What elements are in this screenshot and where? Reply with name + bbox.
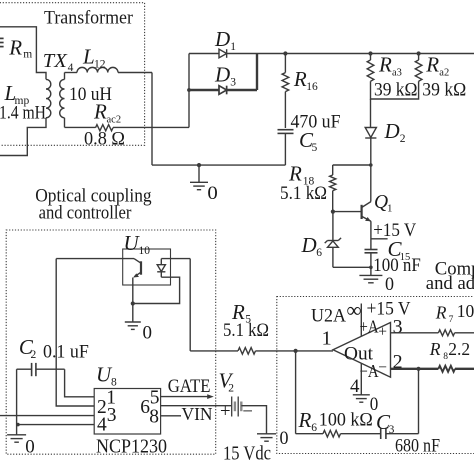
wire: R5 to node [256,350,296,352]
optocoupler U10 box [123,249,171,285]
label Out [344,344,374,365]
svg-text:2: 2 [400,133,406,145]
wire: ground tap to pin4 row [17,424,95,426]
svg-text:−: − [378,359,387,376]
resistor R18 [330,165,336,191]
label C5 [299,128,318,154]
wire: opto to pin2 row [56,259,94,406]
wire: D3 to D1 join [256,54,258,91]
ground (secondary) symbol [190,182,208,189]
label +15 V op-amp [367,299,411,320]
capacitor C5 [278,130,294,134]
svg-text:5.1 kΩ: 5.1 kΩ [223,320,269,341]
label C3 [376,410,395,436]
transistor Q1 [362,202,371,222]
wire: left edge to pin3 row [0,415,94,417]
label pin1 bold [322,328,332,350]
svg-text:5: 5 [312,142,318,154]
svg-text:D: D [301,233,317,257]
svg-text:2: 2 [31,349,37,361]
label 0 left ground [25,438,35,458]
label D1 [214,27,236,53]
label 0.1 uF [43,341,89,362]
label TX4 [43,50,74,74]
resistor R5 [238,348,256,355]
label and adjust (cut) [426,273,474,294]
wire: Ra3 to D2 [370,99,372,128]
svg-text:D: D [214,27,230,51]
svg-text:Transformer: Transformer [44,7,134,28]
svg-text:D: D [384,119,400,143]
opto emitter [133,272,141,277]
svg-text:15 Vdc: 15 Vdc [223,443,271,465]
wire: R18 to base node [332,191,334,212]
node: Ra2 top [417,51,421,55]
label D3 [214,62,236,88]
wire: R6 to C3 [341,433,381,435]
svg-text:R: R [435,303,447,323]
svg-text:5.1 kΩ: 5.1 kΩ [280,183,327,204]
wire D1 left [189,53,219,55]
wire: rail to R16 [284,54,286,73]
svg-text:100 kΩ: 100 kΩ [319,409,373,430]
label Compensation (cut) [435,259,474,280]
wire: +15V supply line [360,304,362,337]
svg-text:a3: a3 [392,68,402,79]
svg-text:1: 1 [322,328,332,350]
wire: R16 to C5 [284,92,286,128]
wire: pin2 out right [455,368,474,370]
svg-text:U2A: U2A [311,306,346,327]
label R8 [429,339,449,362]
wire: top rail [257,53,474,55]
svg-text:8: 8 [111,377,117,389]
wire D3 right [227,89,257,91]
label +15 V (Q1) [373,220,416,241]
wire D1 right [227,53,257,55]
wire: op-amp ground line [360,363,362,395]
wire: primary top [0,27,46,80]
svg-text:0: 0 [385,275,394,295]
diode D1 [219,49,227,58]
label infinity [347,298,362,322]
svg-text:R: R [378,53,392,77]
secondary winding TX4 [60,79,65,117]
wire: D6 C15 join [333,266,373,270]
wire: R_ac2 to diodes [113,126,189,128]
wire: emitter down [132,278,134,323]
resistor Ra3 [367,54,374,82]
label 0 battery ground [280,429,289,449]
wire: D2 down to Q1 collector [370,138,372,202]
label 10 uH [69,84,112,105]
svg-text:1.4 mH: 1.4 mH [0,103,46,124]
label +A [360,317,379,337]
wire: L12 to right vertical [118,73,152,166]
svg-text:and controller: and controller [39,203,132,224]
label 5.1 kohm R18 [280,183,327,204]
svg-text:R: R [425,53,439,77]
svg-text:3: 3 [230,76,236,88]
pin 4 [97,414,107,435]
resistor R_ac2 [96,125,113,131]
svg-text:4: 4 [97,414,107,435]
pin 5 [150,388,160,409]
label U2A [311,306,346,327]
svg-text:R: R [429,339,441,359]
label VIN [182,404,213,424]
wire: R18 top link [333,163,373,167]
svg-text:1: 1 [387,202,393,214]
wire: C2 down to ground [16,369,18,435]
svg-text:TX: TX [43,50,68,72]
svg-text:R: R [8,36,22,60]
node: R16 top [283,51,287,55]
label pin3 [393,316,403,338]
label 0 secondary ground [207,184,217,204]
svg-text:4: 4 [350,376,360,397]
zener diode D6 [325,238,341,247]
resistor R8 [438,366,455,372]
svg-text:0: 0 [25,438,35,458]
label 680 nF [395,436,440,457]
wire: secondary bottom to R_ac2 [65,126,96,128]
svg-text:L: L [82,45,95,69]
wire: secondary top stub [65,73,78,80]
label R_ac2 [93,100,121,126]
wire: VIN [161,415,181,417]
svg-text:39 kΩ: 39 kΩ [422,80,466,101]
svg-text:0.8 Ω: 0.8 Ω [84,129,125,150]
svg-text:D: D [214,62,230,86]
wire: Ra3 Ra2 join [371,81,419,99]
wire: feedback riser [418,369,420,434]
label D2 [384,119,406,145]
ground (op-amp) [353,395,370,402]
diode D2 [365,128,376,139]
node: feedback node [416,367,420,371]
svg-text:16: 16 [306,81,318,93]
label Optical coupling [35,186,151,207]
wire: C2 left [17,368,32,370]
svg-text:3: 3 [107,405,117,426]
label U8 [96,363,117,389]
svg-text:2: 2 [228,382,234,394]
resistor Ra2 [415,54,422,82]
svg-text:0.1 uF: 0.1 uF [43,341,89,362]
svg-text:470 uF: 470 uF [291,111,341,132]
wire: battery to ground [241,406,266,434]
svg-text:6: 6 [316,247,322,259]
label 100 nF [373,255,421,276]
wire: ground stem [198,165,200,182]
wire: C15 to ground [370,253,372,276]
wire: secondary bottom stub [64,118,66,128]
label - battery [242,401,253,422]
label R6 [298,408,318,434]
label R5 [231,300,251,326]
dashed box: Compensation and adjust [277,297,474,454]
wire: feedback bottom left [296,433,323,435]
svg-text:0: 0 [143,324,153,344]
label + battery [220,401,231,422]
ground (15Vdc) [257,434,276,441]
label 10 k (cut) [457,301,474,321]
dashed box: Optical coupling and controller [6,230,216,454]
label Q1 [374,192,393,214]
svg-text:0: 0 [280,429,289,449]
label R_m [8,36,32,61]
wire: secondary ground rail [152,164,285,166]
wire: LED bottom return [133,277,180,303]
label 100 kohm [319,409,373,430]
label U10 [124,231,151,257]
svg-text:+: + [378,324,387,341]
diode D3 [219,86,227,95]
capacitor C3 [381,429,386,440]
svg-text:GATE: GATE [168,376,211,397]
node: op-amp input node [294,349,298,353]
label - input [378,359,387,376]
svg-text:ac2: ac2 [107,115,122,126]
wire: C2 to pin1 row [65,369,95,397]
svg-text:−: − [242,401,253,422]
label 2.2 (cut) [448,339,470,359]
label 1.4 mH [0,103,46,124]
svg-text:10: 10 [457,301,474,321]
label pin2 [393,351,403,373]
svg-text:39 kΩ: 39 kΩ [374,80,418,101]
label R7 [435,303,454,326]
svg-text:5: 5 [150,388,160,409]
wire: primary bottom [0,118,46,156]
wire: C3 to riser [386,433,419,435]
label R16 [293,67,318,93]
svg-text:m: m [23,49,32,61]
label Ra3 [378,53,402,79]
label + input [378,324,387,341]
label L12 [82,45,106,71]
ground (opto) [125,322,141,329]
svg-text:R: R [293,67,307,91]
pin 3 [107,405,117,426]
pin 6 [140,397,150,418]
label 39 kohm right [422,80,466,101]
svg-text:1: 1 [230,41,236,53]
node: opto ground node [131,301,135,305]
svg-text:100 nF: 100 nF [373,255,421,276]
label 0 C15 ground [385,275,394,295]
svg-text:7: 7 [449,315,454,325]
label C15 [388,237,411,263]
wire: to R5 [190,350,238,352]
wire: opto collector wire [56,259,141,264]
wire: right vertical to R5 [189,259,191,351]
label V2 [219,368,235,394]
wire: up to D1 line [188,54,190,128]
opto phototransistor bar [140,261,142,274]
node: Ra3 top [368,51,372,55]
resistor R6 [323,430,340,437]
label C2 [19,335,37,361]
label L_mp [4,81,30,107]
svg-text:680 nF: 680 nF [395,436,440,457]
svg-text:+: + [220,401,231,422]
wire: base wire [333,211,362,213]
wire: pin3 out right [455,332,474,334]
svg-text:Q: Q [374,192,388,213]
svg-text:R: R [298,408,312,432]
ground (C2) [7,435,26,442]
capacitor C2 [32,363,36,376]
label -A [360,361,379,381]
label D6 [301,233,323,259]
dashed box: Transformer section [0,3,145,146]
inductor L12 [77,67,118,72]
label R18 [288,162,315,188]
svg-text:NCP1230: NCP1230 [96,436,167,458]
label 0 opto ground [143,324,153,344]
pin 8 [149,407,159,428]
IC U8 box [94,389,160,435]
wire D3 left [187,88,219,92]
op-amp U2A triangle [333,323,391,378]
capacitor C15 [365,250,378,253]
svg-text:VIN: VIN [182,404,213,424]
label Ra2 [425,53,449,79]
ground (C15) [359,275,382,282]
svg-text:0: 0 [207,184,217,204]
svg-text:R: R [288,162,302,186]
label 5.1 kohm R5 [223,320,269,341]
wire: C5 to ground rail [284,133,286,165]
node: ground rail [197,163,201,167]
wire: +15V stub [371,238,388,240]
label 39 kohm left [374,80,418,101]
svg-text:and adju: and adju [426,273,474,294]
label GATE [168,376,211,397]
svg-text:8: 8 [149,407,159,428]
wire: node down [295,351,297,434]
wire: pin2 out [391,368,439,370]
svg-text:−A: −A [360,361,379,381]
svg-text:2.2: 2.2 [448,339,470,359]
label NCP1230 [96,436,167,458]
node: Q1 base node [331,210,335,214]
svg-text:a2: a2 [439,68,449,79]
wire: base node to D6 [332,212,334,241]
wire: LED top to right [161,258,190,260]
wire: D6 to C15 ground rail [332,247,334,267]
resistor R7 [438,330,454,336]
resistor R_m (cropped at edge) [0,38,4,46]
opto LED [157,259,165,278]
svg-text:10: 10 [139,245,151,257]
svg-text:3: 3 [393,316,403,338]
svg-text:+A: +A [360,317,379,337]
svg-text:R: R [93,100,107,124]
svg-text:12: 12 [94,59,106,71]
wire: Q1 emitter down [370,221,372,249]
wire: pin6 to battery [161,405,232,407]
label: Transformer [44,7,134,28]
label 0.8 ohm [84,129,125,150]
pin 2 [97,397,107,418]
label 15 Vdc [223,443,271,465]
wire: pin3 out [391,332,439,334]
wire: node to op-amp [296,350,333,352]
battery V2 [232,397,242,417]
label pin4 bold [350,376,360,397]
label 470 uF [291,111,341,132]
inductor L_mp primary winding [46,79,51,117]
svg-text:6: 6 [311,422,317,434]
wire: C2 right [36,368,65,370]
label and controller [39,203,132,224]
wire: GATE with arrow [161,394,214,399]
pin 1 [106,388,116,409]
resistor R16 [282,73,289,92]
label 0 op-amp ground [370,395,379,415]
node: pin4 tap [16,423,20,427]
